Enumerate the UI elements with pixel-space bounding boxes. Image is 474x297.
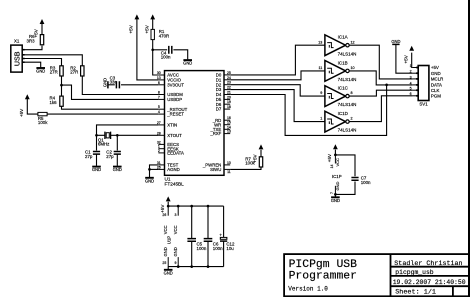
pin 16 _RD <box>224 119 230 121</box>
pin 10 _PWREN <box>224 164 230 166</box>
resistor R6 3R3 <box>40 35 43 45</box>
svg-text:10u: 10u <box>226 246 234 251</box>
svg-text:3V3OUT: 3V3OUT <box>167 82 184 87</box>
wire XTIN to crystal <box>97 125 159 135</box>
svg-text:GND: GND <box>36 69 45 74</box>
pin 2 GND (SV1) <box>413 72 419 74</box>
pin 1 EESK <box>158 148 164 150</box>
node crystal left <box>95 134 98 137</box>
svg-text:XTOUT: XTOUT <box>167 133 182 138</box>
svg-text:+: + <box>219 232 222 237</box>
svg-text:+5V: +5V <box>403 54 408 63</box>
wire C1 to ground <box>96 154 98 166</box>
svg-text:10: 10 <box>351 66 355 70</box>
wire gnd to C3 <box>108 84 115 86</box>
wire crystal stubs <box>97 134 118 136</box>
svg-text:GND: GND <box>431 71 441 76</box>
inverter IC1B 74LS14N <box>325 61 346 82</box>
pin 28 XTOUT <box>158 134 164 136</box>
power +5V for IC1P <box>333 144 338 149</box>
node bus5 <box>177 265 180 268</box>
svg-text:20: 20 <box>227 95 231 99</box>
wire X1.1 to R6 <box>24 46 42 50</box>
pin 24 D1 <box>224 79 230 81</box>
node IC1P GND node <box>334 193 337 196</box>
pin 18 D7 <box>224 108 230 110</box>
pin 21 D4 <box>224 94 230 96</box>
wire U1P VCC bus <box>168 202 223 206</box>
wire C6 leads <box>207 206 209 267</box>
ground for C3 (rotated) <box>107 81 109 88</box>
wire IC1C out to CLK <box>349 90 412 96</box>
node crystal right <box>116 134 119 137</box>
wire bus to ground <box>167 267 169 270</box>
wire X1.4 to ground <box>24 62 40 67</box>
wire D2 to IC1C input <box>230 85 324 96</box>
svg-text:IC1P: IC1P <box>332 174 342 179</box>
wire +5V to IC1P <box>334 150 336 155</box>
svg-text:+5V: +5V <box>34 28 39 37</box>
svg-text:18: 18 <box>227 105 231 109</box>
svg-text:12: 12 <box>351 40 355 44</box>
ground C4 <box>183 59 192 61</box>
resistor R2 27R <box>81 66 84 76</box>
wire +5V to R1 <box>152 19 154 30</box>
wire node A to R4 <box>61 85 63 96</box>
svg-text:EEDATA: EEDATA <box>167 151 184 156</box>
svg-text:_RXF: _RXF <box>209 131 221 136</box>
pin 6 PGM (SV1) <box>413 95 419 97</box>
capacitor C4 100n <box>169 46 172 54</box>
pin 26 AGND <box>158 168 164 170</box>
capacitor C3 33n <box>116 81 119 88</box>
svg-text:74LS14N: 74LS14N <box>338 77 357 82</box>
wire node to C4 <box>153 49 168 51</box>
wire TEST to ground <box>150 165 159 177</box>
node bus4 <box>207 205 210 208</box>
pin 13 VCCIO <box>158 79 164 81</box>
resistor R5 100k <box>38 112 47 115</box>
node A (R3/R4/USBDP) <box>60 84 63 87</box>
power +5V for R6 <box>40 19 45 24</box>
power block U1P pins VCC 26/3 <box>167 206 169 216</box>
wire U1P GND bus <box>168 266 223 268</box>
svg-text:picpgm_usb: picpgm_usb <box>395 269 434 276</box>
ground U1 analog <box>145 177 154 179</box>
svg-text:+5V: +5V <box>327 153 332 162</box>
pin 27 XTIN <box>158 124 164 126</box>
svg-text:30: 30 <box>157 71 161 75</box>
ground IC1P <box>331 196 340 198</box>
svg-text:22: 22 <box>227 86 231 90</box>
svg-text:16: 16 <box>227 116 231 120</box>
svg-text:19.02.2007 21:40:50: 19.02.2007 21:40:50 <box>393 279 466 286</box>
wire D1 to IC1B input <box>230 71 324 80</box>
wire C2 to ground <box>116 154 118 166</box>
svg-text:GND: GND <box>331 198 340 203</box>
svg-text:11: 11 <box>318 66 322 70</box>
svg-text:AGND: AGND <box>167 167 179 172</box>
svg-text:23: 23 <box>227 81 231 85</box>
pin 5 _RSTOUT <box>158 108 164 110</box>
pin 32 EECS <box>158 143 164 145</box>
wire C4 to ground <box>173 50 187 60</box>
ground USB shield <box>36 67 45 69</box>
svg-text:3: 3 <box>174 213 176 217</box>
power +5V for R5 <box>25 94 30 99</box>
power +5V for U1P <box>166 196 171 201</box>
svg-text:USBDP: USBDP <box>167 97 182 102</box>
svg-text:13: 13 <box>227 130 231 134</box>
svg-text:PICPgm USB: PICPgm USB <box>289 259 358 271</box>
wire D3 to IC1D input <box>230 90 324 122</box>
svg-text:GND: GND <box>113 167 122 172</box>
svg-text:GND: GND <box>145 178 154 183</box>
svg-text:GND: GND <box>163 247 168 256</box>
svg-text:_RESET: _RESET <box>166 112 184 117</box>
svg-text:Programmer: Programmer <box>289 270 357 282</box>
svg-text:2: 2 <box>351 117 353 121</box>
capacitor C7 100n <box>351 178 358 181</box>
wire IC1P to C7 <box>335 155 355 176</box>
ground at SV1 <box>392 43 399 45</box>
svg-text:6MHz: 6MHz <box>98 141 109 146</box>
title block <box>284 254 469 296</box>
svg-text:27: 27 <box>157 121 161 125</box>
node bus2 <box>177 205 180 208</box>
svg-text:2: 2 <box>158 149 160 153</box>
svg-text:IC1B: IC1B <box>338 60 348 65</box>
svg-text:7: 7 <box>330 192 334 194</box>
svg-text:3: 3 <box>410 75 412 79</box>
wire node A to USBDP <box>62 85 159 99</box>
wire C3 to 3V3OUT <box>121 84 158 86</box>
svg-text:19: 19 <box>227 100 231 104</box>
node DATA junction <box>385 84 388 87</box>
pin 6 3V3OUT <box>158 84 164 86</box>
crystal Q1 6MHz <box>105 132 111 139</box>
svg-text:IC1D: IC1D <box>338 111 349 116</box>
ground C1 <box>92 166 101 168</box>
capacitor C5 100n <box>187 239 196 242</box>
svg-text:+5V: +5V <box>19 108 24 117</box>
wire +5V to VCCIO <box>137 19 159 80</box>
svg-text:+5V: +5V <box>144 24 149 33</box>
svg-text:13: 13 <box>157 76 161 80</box>
svg-text:Sheet: 1/1: Sheet: 1/1 <box>395 289 436 297</box>
svg-text:21: 21 <box>227 91 231 95</box>
wire C7 return <box>335 182 355 195</box>
svg-text:15: 15 <box>227 121 231 125</box>
capacitor C2 27p <box>114 152 121 155</box>
wire R3 to node A <box>61 76 63 85</box>
power +5V for R7 <box>259 144 264 149</box>
connector SV1 <box>418 66 429 101</box>
svg-text:33n: 33n <box>110 80 118 85</box>
wire AGND to ground <box>150 168 159 170</box>
connector X1 USB <box>11 45 22 72</box>
svg-text:+5V: +5V <box>129 24 134 33</box>
node IC1P VCC node <box>334 154 337 157</box>
svg-text:GND: GND <box>173 247 178 256</box>
svg-text:GND: GND <box>335 182 340 191</box>
capacitor C6 100n <box>204 239 213 242</box>
wire D0 to IC1A input <box>230 45 324 75</box>
svg-text:9: 9 <box>320 91 322 95</box>
pin 23 D2 <box>224 84 230 86</box>
svg-text:USB: USB <box>14 51 22 66</box>
pin 15 WR <box>224 124 230 126</box>
resistor R7 100k <box>259 157 262 167</box>
power block IC1P pin 14 VCC <box>334 155 336 164</box>
svg-text:74LS14N: 74LS14N <box>338 51 357 56</box>
wire C12 leads <box>223 206 225 267</box>
node bus1 <box>167 205 170 208</box>
power +5V for R1/AVCC <box>150 14 155 19</box>
svg-text:10: 10 <box>227 161 231 165</box>
svg-text:3R3: 3R3 <box>27 39 36 44</box>
pin 7 USBDP <box>158 98 164 100</box>
svg-text:27p: 27p <box>106 154 114 159</box>
resistor R3 27R <box>60 66 63 76</box>
wire to C1 <box>96 135 98 150</box>
svg-text:27R: 27R <box>70 70 78 75</box>
power block IC1P pin 7 GND <box>334 186 336 195</box>
svg-text:+5V: +5V <box>253 153 258 162</box>
svg-text:5: 5 <box>410 87 412 91</box>
svg-text:13: 13 <box>318 40 322 44</box>
svg-text:1: 1 <box>410 64 412 68</box>
svg-text:14: 14 <box>330 164 334 168</box>
wire XTOUT to crystal <box>117 134 158 136</box>
svg-text:5: 5 <box>158 105 160 109</box>
power block U1P pins GND 25/9 <box>167 257 169 267</box>
svg-text:GND: GND <box>164 270 173 275</box>
svg-text:VCC: VCC <box>335 158 340 167</box>
wire to ground <box>334 194 336 196</box>
svg-text:IC1A: IC1A <box>338 35 348 40</box>
pin 8 USBDM <box>158 94 164 96</box>
svg-text:+5V: +5V <box>431 65 439 70</box>
svg-text:GND: GND <box>92 167 101 172</box>
svg-text:27p: 27p <box>85 154 93 159</box>
svg-text:Stadler Christian: Stadler Christian <box>394 260 462 268</box>
wire ground to SV1.2 <box>396 44 413 73</box>
wire D4 to DATA net <box>230 85 386 135</box>
svg-text:DATA: DATA <box>431 83 442 88</box>
svg-text:MCLR: MCLR <box>431 77 443 82</box>
svg-text:IC1C: IC1C <box>338 86 349 91</box>
node bus7 <box>207 265 210 268</box>
svg-text:CLK: CLK <box>431 88 440 93</box>
svg-text:100n: 100n <box>361 180 371 185</box>
inverter IC1C 74LS14N <box>325 86 346 107</box>
wire C5 leads <box>191 206 193 267</box>
pin 11 SIWU <box>224 168 230 170</box>
node TEST/AGND join <box>148 168 151 171</box>
node bus3 <box>190 205 193 208</box>
pin 20 D5 <box>224 98 230 100</box>
svg-text:PGM: PGM <box>431 93 441 98</box>
svg-text:6: 6 <box>158 81 160 85</box>
pin 1 +5V (SV1) <box>413 67 419 69</box>
svg-text:VCC: VCC <box>163 225 168 234</box>
svg-text:8: 8 <box>351 91 353 95</box>
svg-text:X1: X1 <box>14 39 20 44</box>
svg-text:1k6: 1k6 <box>50 100 58 105</box>
svg-text:28: 28 <box>157 131 161 135</box>
svg-text:24: 24 <box>227 76 231 80</box>
svg-text:25: 25 <box>227 71 231 75</box>
pin 4 _RESET <box>158 113 164 115</box>
svg-text:25: 25 <box>162 261 166 265</box>
node AVCC filter <box>151 48 154 51</box>
pin 2 EEDATA <box>158 152 164 154</box>
pin 19 D6 <box>224 103 230 105</box>
pin 14 _TXE <box>224 128 230 130</box>
wire R4 to _RSTOUT <box>62 106 159 109</box>
inverter IC1A 74LS14N <box>325 35 346 56</box>
svg-text:470R: 470R <box>159 34 170 39</box>
op-amp U1 FT245BL (main IC) <box>165 71 225 176</box>
wire IC1A out to MCLR <box>349 45 412 79</box>
pin 5 CLK (SV1) <box>413 89 419 91</box>
svg-text:VCC: VCC <box>173 225 178 234</box>
svg-text:26: 26 <box>162 213 166 217</box>
svg-text:1: 1 <box>320 117 322 121</box>
svg-text:100k: 100k <box>38 120 48 125</box>
wire to C2 <box>116 135 118 150</box>
resistor R4 1k6 <box>60 96 63 106</box>
svg-text:SIWU: SIWU <box>210 167 221 172</box>
svg-text:D7: D7 <box>216 107 222 112</box>
pin 22 D3 <box>224 89 230 91</box>
pin 13 _RXF <box>224 133 230 135</box>
svg-text:2: 2 <box>410 70 412 74</box>
wire +5V to SV1.1 <box>411 53 414 68</box>
pin 4 DATA (SV1) <box>413 84 419 86</box>
svg-text:100n: 100n <box>161 55 171 60</box>
svg-text:SV1: SV1 <box>419 101 428 106</box>
svg-text:GND: GND <box>183 61 192 66</box>
svg-text:4: 4 <box>158 110 160 114</box>
svg-text:U1P: U1P <box>167 236 172 245</box>
svg-text:9: 9 <box>174 261 176 265</box>
inverter IC1D 74LS14N <box>325 111 346 132</box>
svg-text:4: 4 <box>410 81 412 85</box>
svg-text:FT245BL: FT245BL <box>165 182 185 187</box>
ground U1P <box>164 269 173 271</box>
svg-text:11: 11 <box>227 170 231 174</box>
pin 30 AVCC <box>158 74 164 76</box>
svg-text:74LS14N: 74LS14N <box>338 102 357 107</box>
wire IC1D out to PGM <box>349 96 412 122</box>
svg-text:Version 1.0: Version 1.0 <box>288 286 328 293</box>
svg-text:+5V: +5V <box>160 204 165 213</box>
svg-text:74LS14N: 74LS14N <box>338 128 357 133</box>
svg-text:6: 6 <box>410 92 412 96</box>
svg-text:8: 8 <box>158 91 160 95</box>
wire R1 to AVCC <box>153 40 159 75</box>
pin 25 D0 <box>224 74 230 76</box>
wire IC1B out to DATA <box>349 71 412 85</box>
resistor R1 470R <box>151 29 154 39</box>
wire X1.2 to R2 <box>24 55 82 66</box>
svg-text:31: 31 <box>157 161 161 165</box>
ground C2 <box>113 166 122 168</box>
svg-text:GND: GND <box>391 39 400 44</box>
svg-text:XTIN: XTIN <box>167 123 177 128</box>
svg-text:GND: GND <box>102 78 107 87</box>
pin 3 MCLR (SV1) <box>413 78 419 80</box>
wire R5 to _RESET <box>47 113 158 115</box>
wire X1.3 to R3 <box>24 59 61 66</box>
wire R2 to USBDM <box>82 76 158 95</box>
wire SIWU to R7 <box>230 167 261 169</box>
svg-text:27R: 27R <box>50 70 58 75</box>
capacitor C1 27p <box>93 152 100 155</box>
svg-text:100n: 100n <box>213 246 223 251</box>
svg-text:100n: 100n <box>197 246 207 251</box>
power +5V for SV1 <box>409 46 414 51</box>
node bus6 <box>190 265 193 268</box>
wire +5V to R5 <box>27 99 38 115</box>
wire R6 to +5V <box>41 23 43 35</box>
svg-text:26: 26 <box>157 165 161 169</box>
wire R7 to +5V <box>260 150 262 157</box>
power +5V for VCCIO <box>135 14 140 19</box>
pin 31 TEST <box>158 164 164 166</box>
svg-text:7: 7 <box>158 95 160 99</box>
